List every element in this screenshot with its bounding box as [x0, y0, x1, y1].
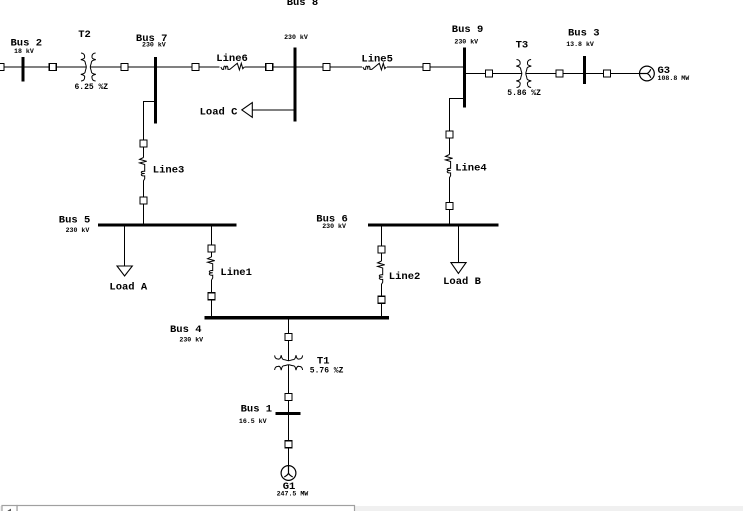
breaker square Line4 bottom: [446, 203, 453, 210]
svg-text:230 kV: 230 kV: [284, 34, 308, 41]
wire: Bus 5 to Load A: [124, 227, 126, 267]
breaker square Bus3-G3: [604, 70, 611, 77]
breaker square Bus9-T3: [486, 70, 493, 77]
wire: Bus 7 down to Line3: [144, 102, 155, 158]
svg-text:T1: T1: [317, 356, 330, 368]
scrollbar left arrow button: [2, 506, 17, 511]
generator G1: [281, 466, 296, 481]
svg-text:230 kV: 230 kV: [142, 42, 166, 49]
wire: T1 to Bus 1: [288, 365, 290, 412]
svg-text:247.5 MW: 247.5 MW: [277, 491, 309, 498]
wire: Line2 down to Bus 4: [381, 284, 383, 316]
svg-text:Bus 3: Bus 3: [568, 28, 600, 40]
bus bar Bus 2: [22, 57, 25, 82]
wire: Bus 1 to G1: [288, 415, 290, 466]
line symbol Line1: [208, 257, 215, 280]
wire: T2 to Line6: [90, 66, 219, 68]
svg-text:108.8 MW: 108.8 MW: [658, 75, 690, 82]
transformer T3: [516, 60, 531, 88]
svg-text:230 kV: 230 kV: [66, 227, 90, 234]
scrollbar thumb: [17, 506, 355, 511]
transformer T2: [81, 53, 96, 81]
bus bar Bus 3: [583, 56, 586, 84]
breaker square Line1 top: [208, 245, 215, 252]
generator G3: [640, 66, 655, 81]
bus bar Bus 4: [205, 316, 390, 319]
breaker square Line6-Bus8: [266, 64, 273, 71]
wire: Line3 down to Bus 5: [143, 181, 145, 224]
breaker square Line3 top: [140, 140, 147, 147]
wire: Line6 to Line5: [245, 66, 363, 68]
wire: Bus 6 to Load B: [457, 227, 459, 263]
breaker square Line3 bottom: [140, 197, 147, 204]
breaker square Bus8-Line5: [323, 64, 330, 71]
breaker square Bus2-T2: [49, 64, 56, 71]
svg-text:230 kV: 230 kV: [322, 223, 346, 230]
svg-text:5.76 %Z: 5.76 %Z: [310, 367, 344, 376]
svg-text:Line4: Line4: [455, 162, 487, 174]
wire: Line4 down to Bus 6: [448, 178, 450, 224]
breaker square T3-Bus3: [556, 70, 563, 77]
svg-text:Load B: Load B: [443, 276, 482, 288]
svg-text:Bus 4: Bus 4: [170, 324, 202, 336]
breaker square Bus1-G1: [285, 441, 292, 448]
svg-text:Bus 8: Bus 8: [287, 0, 319, 9]
svg-text:6.25 %Z: 6.25 %Z: [75, 83, 109, 92]
line symbol Line6: [221, 63, 245, 70]
breaker square at left edge (to G2): [0, 64, 4, 71]
line symbol Line5: [363, 63, 387, 70]
breaker square Line4 top: [446, 131, 453, 138]
wire: Bus 6 down to Line2: [381, 227, 383, 262]
line symbol Line4: [446, 155, 453, 178]
svg-text:Bus 5: Bus 5: [59, 214, 91, 226]
scrollbar left arrow glyph: [8, 509, 12, 511]
line symbol Line3: [140, 158, 147, 181]
svg-text:230 kV: 230 kV: [454, 39, 478, 46]
svg-text:16.5 kV: 16.5 kV: [239, 418, 267, 425]
transformer T1: [275, 355, 303, 370]
wire: Bus 8 to Load C: [252, 109, 294, 111]
wire: Bus 9 down to Line4: [449, 99, 463, 155]
svg-text:Line6: Line6: [216, 53, 248, 65]
svg-text:Load C: Load C: [200, 106, 239, 118]
wire: T3 to G3: [526, 73, 640, 75]
bus bar Bus 5: [98, 223, 237, 226]
wire: Line5 to Bus 9: [387, 66, 465, 68]
load arrow Load A: [117, 266, 132, 276]
breaker square Bus7-Line6: [192, 64, 199, 71]
svg-text:13.8 kV: 13.8 kV: [566, 41, 594, 48]
svg-text:Line5: Line5: [361, 54, 393, 66]
svg-text:Line3: Line3: [153, 165, 185, 177]
svg-text:18 kV: 18 kV: [14, 48, 34, 55]
svg-text:T3: T3: [516, 39, 529, 51]
wire: Bus 5 down to Line1: [211, 227, 213, 257]
breaker square Bus4-T1: [285, 334, 292, 341]
svg-text:Bus 1: Bus 1: [241, 403, 273, 415]
wire: Line1 down to Bus 4: [211, 280, 213, 317]
bus bar Bus 8: [294, 48, 297, 122]
breaker square Line5-Bus9: [423, 64, 430, 71]
svg-text:230 kV: 230 kV: [179, 337, 203, 344]
svg-text:5.86 %Z: 5.86 %Z: [507, 89, 541, 98]
wire: Bus 9 to T3: [465, 73, 523, 75]
bus bar Bus 7: [154, 57, 157, 124]
breaker square T1-Bus1: [285, 394, 292, 401]
bus bar Bus 9: [463, 48, 466, 108]
line symbol Line2: [378, 261, 385, 284]
svg-text:Bus 9: Bus 9: [452, 24, 484, 36]
bus bar Bus 6: [368, 223, 499, 226]
svg-text:Line1: Line1: [220, 267, 252, 279]
breaker square T2-Bus7: [121, 64, 128, 71]
bus bar Bus 1: [276, 412, 301, 415]
scrollbar track (bottom): [0, 506, 743, 511]
breaker square Line2 bottom: [378, 296, 385, 303]
wire: main 230kV bus tie, left of T2: [0, 66, 87, 68]
load arrow Load C: [242, 103, 253, 118]
load arrow Load B: [451, 263, 466, 274]
svg-text:Line2: Line2: [389, 271, 421, 283]
svg-text:T2: T2: [78, 29, 91, 41]
breaker square Line1 bottom: [208, 293, 215, 300]
breaker square Line2 top: [378, 246, 385, 253]
svg-text:Load A: Load A: [109, 282, 148, 294]
wire: Bus 4 to T1: [288, 319, 290, 361]
